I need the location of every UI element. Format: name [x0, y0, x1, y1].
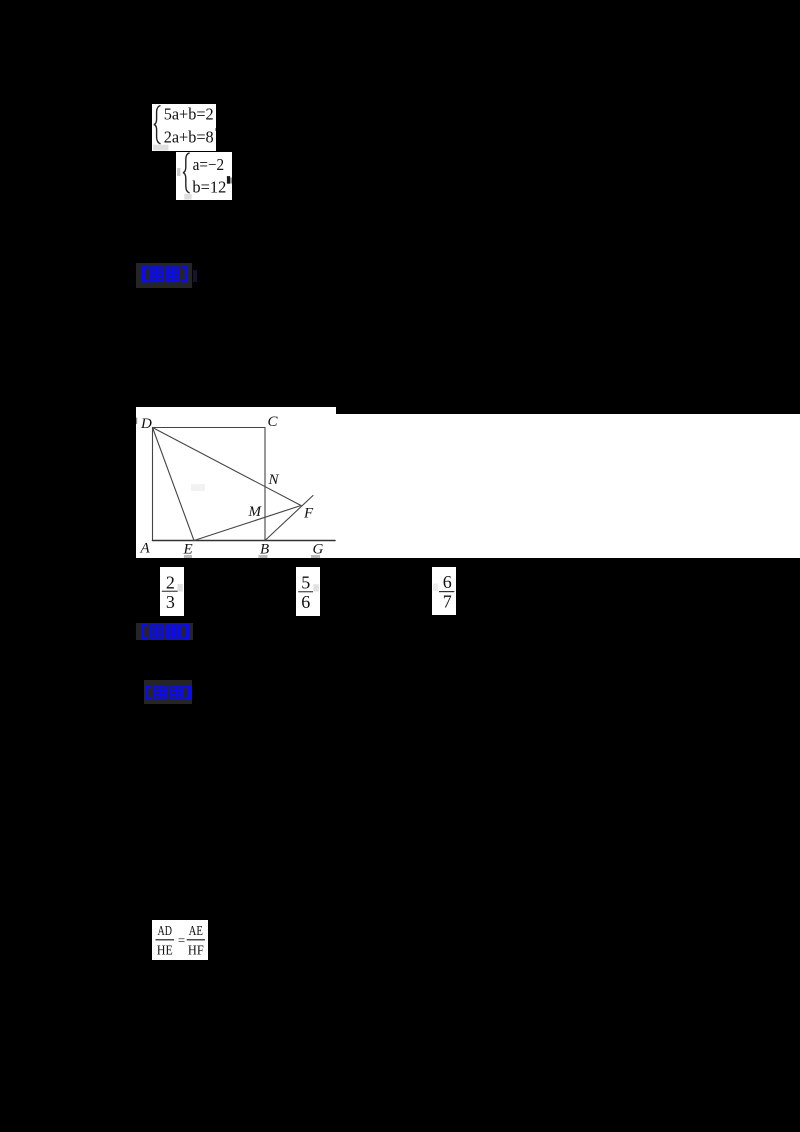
geometry figure white panel left [136, 407, 336, 558]
gray tick left edge near D [136, 418, 137, 424]
svg-text:AE: AE [189, 923, 203, 938]
svg-text:=: = [178, 933, 185, 948]
blue label 3 text [145, 686, 191, 700]
svg-text:HF: HF [188, 943, 204, 958]
square side CB [264, 428, 266, 541]
fraction bar right [187, 939, 205, 940]
brace of system 1 [154, 106, 161, 144]
svg-text:AD: AD [158, 923, 173, 938]
svg-text:C: C [268, 414, 279, 430]
fraction 5/6 [296, 567, 320, 616]
svg-text:5a+b=2: 5a+b=2 [164, 105, 214, 124]
square side DC [153, 427, 266, 429]
svg-text:A: A [140, 541, 151, 557]
gray mark under B [259, 555, 268, 559]
faint smudge [191, 484, 205, 491]
svg-text:N: N [268, 472, 280, 488]
gray artifact left edge [177, 168, 180, 176]
geometry figure drawing [136, 407, 348, 558]
svg-text:b=12: b=12 [192, 177, 226, 196]
equation system box 1: {5a+b=2 ; 2a+b=8 [152, 104, 216, 151]
fraction bar left [156, 939, 175, 940]
brace of system 2 [183, 152, 190, 192]
dark artifact right of label 1 [193, 270, 197, 282]
gray mark under G [311, 555, 320, 559]
svg-text:6: 6 [301, 592, 310, 612]
proportion box AD/HE = AE/HF [152, 920, 208, 960]
blue label 2 box [136, 623, 193, 640]
svg-text:M: M [248, 504, 263, 520]
gray mark under E [184, 555, 192, 559]
dark artifact right of 12 [227, 176, 230, 184]
equation system box 2: {a=-2 ; b=12 [176, 152, 232, 201]
fraction 6/7 [432, 567, 456, 615]
gray tick right of 8 [215, 128, 216, 131]
segment E-F through M [194, 506, 301, 541]
segment B-F extended [265, 496, 313, 541]
square side AD [152, 428, 154, 541]
gray artifact bottom-left of box1 [153, 145, 169, 151]
geometry figure white panel right [336, 414, 800, 558]
svg-text:5: 5 [301, 572, 310, 592]
segment D-F through N [153, 428, 302, 506]
svg-text:D: D [140, 416, 152, 432]
svg-text:3: 3 [166, 592, 175, 612]
gray artifact bottom [184, 194, 191, 200]
blue label 1 text [142, 266, 188, 283]
svg-text:F: F [303, 506, 314, 522]
svg-text:6: 6 [443, 572, 452, 592]
baseline A-B-G [153, 540, 336, 542]
blue label 1 box [136, 263, 192, 288]
svg-text:a=−2: a=−2 [193, 154, 225, 173]
svg-text:2: 2 [166, 572, 175, 592]
svg-text:HE: HE [157, 943, 173, 958]
segment D-E [153, 428, 195, 541]
svg-text:7: 7 [443, 591, 452, 611]
svg-text:2a+b=8: 2a+b=8 [164, 128, 214, 147]
blue label 3 box [144, 680, 192, 704]
fraction 2/3 [160, 567, 184, 616]
blue label 2 text [141, 624, 189, 640]
